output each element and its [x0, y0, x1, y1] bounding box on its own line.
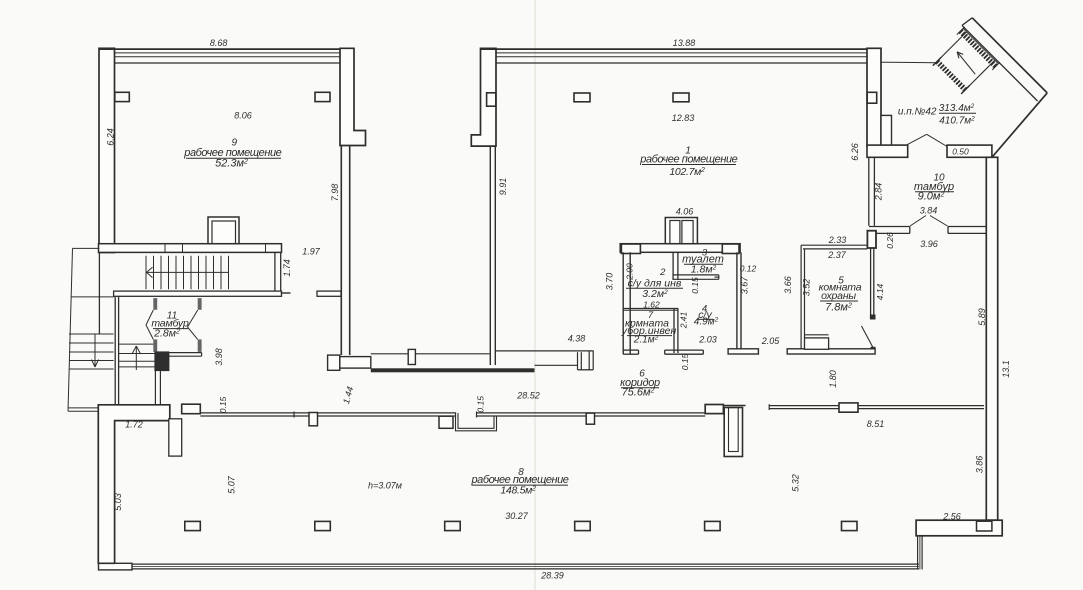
svg-text:0.15: 0.15	[476, 396, 486, 413]
svg-text:75.6м2: 75.6м2	[622, 387, 655, 399]
corridor label	[620, 369, 660, 399]
svg-text:7.98: 7.98	[330, 184, 340, 202]
column rect on wall x705	[705, 405, 723, 414]
svg-text:9.0м2: 9.0м2	[918, 191, 945, 203]
lower flight up arrow	[135, 346, 137, 370]
svg-text:0.12: 0.12	[740, 263, 757, 273]
column rect on wall x439	[439, 416, 453, 428]
svg-text:охраны: охраны	[821, 290, 856, 302]
column rect on wall x839	[839, 403, 858, 412]
svg-text:410.7м2: 410.7м2	[939, 116, 975, 127]
room 8 columns row	[185, 521, 857, 530]
room 4 label	[694, 304, 719, 328]
assembly thin bottom right	[535, 364, 578, 366]
svg-text:4.38: 4.38	[568, 334, 586, 344]
svg-text:0.15: 0.15	[680, 353, 690, 370]
room 3 left wall	[673, 252, 678, 279]
stair enclosure right wall	[275, 252, 281, 296]
wall W1 left exterior of room 9	[99, 48, 115, 252]
svg-text:1.62: 1.62	[643, 299, 660, 309]
junction column between tambur 10 and room 5	[867, 231, 876, 248]
room 5 bottom wall band	[787, 349, 875, 354]
svg-text:5.07: 5.07	[227, 475, 237, 494]
box at left of assembly	[328, 355, 340, 370]
room 5 door pivot block	[871, 347, 876, 350]
black column at tambur 11	[155, 352, 169, 371]
svg-text:313.4м2: 313.4м2	[939, 103, 975, 114]
svg-text:4.14: 4.14	[875, 283, 885, 300]
svg-text:2.8м2: 2.8м2	[153, 328, 180, 340]
svg-text:3.52: 3.52	[802, 279, 812, 297]
svg-text:28.52: 28.52	[516, 391, 540, 401]
svg-text:5.03: 5.03	[113, 493, 123, 511]
room 9 label	[183, 138, 281, 170]
tambur 11 left wall	[115, 297, 118, 405]
room 8 label	[471, 467, 569, 496]
toilet block left wall	[623, 252, 630, 354]
svg-text:1.80: 1.80	[828, 370, 838, 388]
svg-text:6.26: 6.26	[850, 143, 860, 161]
svg-text:8.68: 8.68	[210, 38, 228, 48]
room 3 bottom wall	[672, 275, 718, 279]
window band top of room 1	[481, 49, 882, 63]
toilet block bottom wall segments	[623, 350, 703, 354]
ticks on band B1	[165, 244, 266, 253]
band B2 right piece	[317, 291, 341, 296]
tambur 11 bottom wall	[169, 353, 202, 357]
room 3 label	[682, 248, 724, 276]
svg-text:6.24: 6.24	[106, 128, 116, 146]
room 1 and 9 columns row	[115, 92, 877, 106]
shaft S2 above band	[665, 218, 697, 244]
right exterior wall	[986, 157, 997, 520]
band SE of tambur 10 entrance	[947, 145, 992, 157]
room 7 right wall	[674, 308, 678, 353]
column on bottom-left wall	[182, 404, 201, 414]
svg-text:h=3.07м: h=3.07м	[368, 480, 402, 490]
svg-text:13.88: 13.88	[673, 38, 696, 48]
svg-text:3.98: 3.98	[214, 348, 224, 366]
bottom window band	[132, 536, 922, 570]
room 5 right wall black cap	[870, 315, 876, 320]
column rect on wall x309	[309, 413, 318, 426]
svg-text:3.84: 3.84	[920, 206, 938, 216]
tambur 10 label	[914, 173, 954, 203]
svg-text:8.51: 8.51	[867, 419, 885, 429]
column in bottom right band	[977, 521, 992, 531]
wide rect of assembly	[340, 357, 371, 369]
svg-text:102.7м2: 102.7м2	[669, 166, 705, 178]
band B2 stair bottom wall	[114, 291, 282, 296]
band B2 right foot	[281, 292, 291, 294]
svg-text:3.66: 3.66	[783, 276, 793, 294]
window band top of room 9	[99, 49, 354, 63]
wall W2 right wall of room 9 with notch	[340, 48, 366, 145]
column rect on wall x586	[586, 413, 594, 424]
svg-text:3.70: 3.70	[605, 273, 615, 291]
svg-text:1.97: 1.97	[302, 247, 321, 257]
diagonal site boundary	[962, 18, 1047, 158]
svg-text:12.83: 12.83	[672, 113, 695, 123]
svg-text:3.67: 3.67	[740, 276, 750, 295]
svg-text:2.84: 2.84	[874, 183, 884, 202]
svg-text:8.06: 8.06	[234, 111, 252, 121]
svg-text:9.91: 9.91	[498, 178, 508, 196]
yard down arrow	[94, 334, 96, 367]
room 5 top wall	[801, 245, 867, 249]
svg-text:30.27: 30.27	[505, 511, 529, 521]
toilet block right wall	[737, 252, 741, 348]
bottom left exterior wall	[98, 405, 170, 564]
corridor south wall right part	[769, 404, 984, 410]
U-column below wall	[723, 405, 745, 407]
assembly top line left	[371, 353, 490, 355]
svg-text:28.39: 28.39	[540, 571, 564, 581]
yard bottom lines	[68, 407, 98, 409]
tambur 10 left wall	[869, 157, 875, 226]
tambur 11 door jambs	[153, 298, 201, 352]
room 5 right wall	[871, 248, 874, 319]
lower flight steps	[119, 343, 155, 345]
svg-text:1.72: 1.72	[125, 420, 143, 430]
corridor south wall mid part	[477, 412, 706, 418]
svg-text:2.33: 2.33	[828, 235, 847, 245]
stair enclosure left line	[98, 252, 100, 334]
column rect left end of band	[621, 244, 640, 254]
svg-text:5.32: 5.32	[791, 474, 801, 492]
thin wall below W3	[490, 146, 495, 365]
yard mid line	[71, 296, 113, 298]
tambur 10 bottom wall left piece	[869, 227, 910, 234]
svg-text:148.5м2: 148.5м2	[500, 484, 536, 496]
tambur 11 door swing lines	[146, 310, 198, 339]
wall strip right of W4	[881, 115, 892, 146]
sill line toward entrance stair	[881, 61, 937, 64]
svg-text:2.03: 2.03	[698, 334, 717, 344]
stair direction line with arrow	[147, 267, 230, 277]
svg-text:52.3м2: 52.3м2	[215, 158, 248, 170]
room 2 bottom wall	[623, 308, 678, 310]
svg-text:2.41: 2.41	[679, 311, 689, 329]
yard steps	[69, 333, 114, 335]
svg-text:2.05: 2.05	[761, 336, 781, 346]
room 5 niche top line	[805, 334, 829, 336]
svg-text:0.26: 0.26	[885, 232, 895, 249]
svg-text:0.15: 0.15	[218, 396, 228, 413]
yard top line	[73, 247, 100, 249]
room 7 label	[621, 310, 677, 345]
door swing bottom of tambur 10	[910, 216, 948, 227]
svg-text:3.86: 3.86	[975, 456, 985, 474]
scan artifact line	[534, 0, 536, 590]
thin wall below W2	[341, 146, 349, 356]
svg-text:2.37: 2.37	[827, 250, 847, 260]
svg-text:3.96: 3.96	[920, 239, 938, 249]
svg-text:2.00: 2.00	[625, 263, 635, 281]
tambur 11 label	[151, 311, 189, 340]
assembly thick bottom	[371, 368, 535, 372]
room 5 door leaf	[862, 326, 874, 349]
room 1 label	[639, 146, 737, 178]
svg-text:1.74: 1.74	[282, 259, 292, 277]
assembly T foot	[578, 351, 594, 370]
svg-text:0.50: 0.50	[952, 147, 969, 157]
stair steps upper flight	[146, 256, 229, 290]
bottom window left stub	[99, 563, 133, 570]
room 5 label	[819, 276, 862, 314]
column rect right end of band	[722, 244, 739, 254]
wall W3 left wall of room 1 with notch	[471, 48, 496, 146]
room 5 niche box	[805, 338, 829, 349]
room 5 left wall	[801, 245, 804, 352]
corridor south wall left part	[200, 412, 456, 418]
svg-text:4.06: 4.06	[676, 207, 694, 217]
svg-text:рабочее помещение: рабочее помещение	[639, 154, 737, 166]
door swing top of tambur 10	[906, 134, 947, 146]
room 2 label	[626, 267, 683, 300]
svg-text:0.15: 0.15	[690, 277, 700, 294]
tambur 10 bottom wall right piece	[948, 227, 990, 234]
entrance exterior stair (rotated)	[929, 27, 1000, 98]
svg-text:2.56: 2.56	[942, 512, 961, 522]
band SW of tambur 10	[867, 145, 908, 157]
svg-text:и.п.№42: и.п.№42	[898, 107, 937, 118]
svg-text:7.8м2: 7.8м2	[825, 302, 852, 314]
niche recess in wall	[456, 413, 497, 431]
door stub below bottom-left wall	[169, 419, 182, 456]
entrance area label	[898, 103, 976, 127]
shaft S1 on band B1	[208, 217, 239, 244]
band B1 room9 bottom wall	[99, 244, 282, 253]
wall W4 right wall of room 1	[867, 48, 881, 146]
toilet block right wall foot	[728, 349, 758, 354]
bottom right wall band	[916, 520, 1002, 536]
assembly top line right	[496, 350, 594, 352]
svg-text:13.1: 13.1	[1001, 360, 1011, 378]
yard fence line	[68, 248, 73, 411]
svg-text:5.89: 5.89	[977, 308, 987, 326]
assembly vertical column rect	[408, 349, 415, 364]
passage walls below black column	[155, 371, 160, 405]
toilet block top band	[620, 244, 740, 253]
